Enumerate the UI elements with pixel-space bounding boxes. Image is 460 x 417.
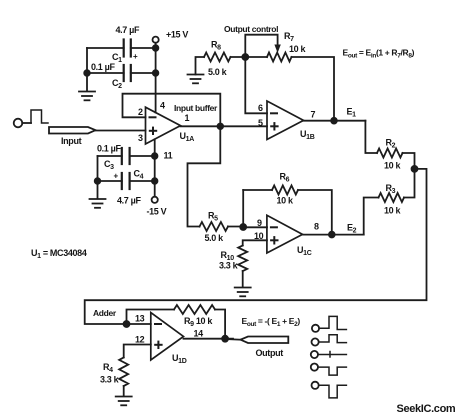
capacitor C4 xyxy=(114,169,144,206)
svg-text:4.7 µF: 4.7 µF xyxy=(116,25,140,35)
svg-text:5.0 k: 5.0 k xyxy=(208,67,228,77)
wire C2 left xyxy=(87,72,124,74)
wire C2 right xyxy=(131,72,156,74)
svg-text:13: 13 xyxy=(135,314,145,324)
ground (top-left cap rail) xyxy=(79,92,95,101)
svg-text:E1: E1 xyxy=(347,107,357,119)
node U1B output / R7 xyxy=(331,118,337,124)
svg-text:R9 10 k: R9 10 k xyxy=(184,316,213,328)
svg-text:+: + xyxy=(133,52,138,61)
-15V terminal xyxy=(147,197,167,217)
wire R4 to ground xyxy=(123,386,125,396)
svg-text:5: 5 xyxy=(258,118,263,128)
wire left rail C3/C4 xyxy=(97,156,99,199)
capacitor C2 xyxy=(91,62,131,90)
wire input flag to pin 3 xyxy=(96,130,146,132)
svg-text:10 k: 10 k xyxy=(277,196,294,206)
wire pin 10 xyxy=(243,240,267,245)
capacitor C3 xyxy=(97,144,130,172)
svg-text:1: 1 xyxy=(185,113,190,123)
svg-text:3.3 k: 3.3 k xyxy=(100,375,120,385)
op-amp U1D xyxy=(151,313,187,365)
svg-text:R8: R8 xyxy=(211,40,221,52)
node R2/R3 summing xyxy=(412,166,418,172)
wire R6 feedback left vertical xyxy=(242,190,244,227)
svg-text:R5: R5 xyxy=(208,211,218,223)
svg-text:C4: C4 xyxy=(134,169,144,181)
wire R3 right to node xyxy=(404,169,415,198)
svg-text:10 k: 10 k xyxy=(384,206,401,216)
wire R5 to pin 9 node xyxy=(228,226,243,228)
waveform terminal 3 xyxy=(311,351,318,358)
wire R7 right to U1B output node xyxy=(292,57,335,121)
node C4 left rail xyxy=(95,178,101,184)
wire pin 6 from R8/R7 node xyxy=(245,57,267,113)
svg-text:11: 11 xyxy=(164,151,173,161)
svg-text:R4: R4 xyxy=(103,362,113,374)
svg-text:U1C: U1C xyxy=(297,245,312,257)
waveform trace 5 (large negative pulse) xyxy=(319,385,347,398)
svg-text:14: 14 xyxy=(194,328,204,338)
wire output node to flag xyxy=(225,338,241,341)
svg-text:SeekIC.com: SeekIC.com xyxy=(397,403,456,415)
op-amp U1A xyxy=(146,103,219,144)
svg-text:-15 V: -15 V xyxy=(147,207,167,217)
ground (R8) xyxy=(188,75,204,84)
wire pin 9 xyxy=(243,226,267,228)
svg-text:Output control: Output control xyxy=(224,24,278,34)
wire R10 to ground xyxy=(242,271,244,287)
wire R9 feedback xyxy=(127,310,175,325)
wire C1 left xyxy=(87,47,124,49)
svg-text:Adder: Adder xyxy=(93,308,117,318)
wire E2 to R3 xyxy=(364,198,379,235)
resistor R2 xyxy=(377,138,403,171)
svg-text:Output: Output xyxy=(256,348,284,358)
waveform terminal 5 xyxy=(312,382,319,389)
svg-text:6: 6 xyxy=(258,103,263,113)
svg-text:12: 12 xyxy=(135,335,145,345)
resistor R4 xyxy=(100,358,128,387)
svg-text:9: 9 xyxy=(257,218,262,228)
resistor R3 xyxy=(379,183,405,216)
svg-text:Input: Input xyxy=(61,136,82,146)
svg-text:U1 = MC34084: U1 = MC34084 xyxy=(31,248,87,260)
wire U1A output down to R5 xyxy=(188,126,221,226)
svg-text:4: 4 xyxy=(160,101,165,111)
wire +15V rail xyxy=(155,43,157,113)
resistor R5 xyxy=(200,211,229,244)
ground (C3/C4 rail) xyxy=(90,199,106,208)
waveform trace 1 (large positive pulse) xyxy=(319,316,346,329)
wire U1A output xyxy=(181,125,268,127)
input pulse waveform glyph xyxy=(31,110,48,123)
waveform trace 4 (small negative pulse) xyxy=(318,367,346,375)
node C4 / -15V rail xyxy=(152,178,158,184)
wire pin 11 xyxy=(154,139,156,196)
wire U1D output xyxy=(184,338,234,340)
wire C1 right xyxy=(131,47,156,49)
svg-text:0.1 µF: 0.1 µF xyxy=(97,144,121,154)
wire R6 left xyxy=(243,189,272,191)
wire C4 right xyxy=(130,180,155,182)
svg-text:3: 3 xyxy=(138,133,143,143)
svg-text:U1D: U1D xyxy=(172,353,187,365)
wire R2 right to node xyxy=(403,153,415,169)
node U1A output xyxy=(218,124,224,130)
svg-text:+: + xyxy=(114,172,119,181)
node C1/+15V rail xyxy=(153,45,159,51)
wire R9 right to output node xyxy=(215,310,225,339)
input pointer flag "Input" xyxy=(49,127,96,146)
waveform terminal 2 xyxy=(312,338,319,345)
svg-text:4.7 µF: 4.7 µF xyxy=(117,196,141,206)
node U1C output / R6 xyxy=(329,232,335,238)
wire R8 to node xyxy=(231,56,268,58)
svg-text:R6: R6 xyxy=(280,172,290,184)
wire output control xyxy=(245,35,277,57)
svg-text:C3: C3 xyxy=(104,159,114,171)
resistor R9 xyxy=(174,305,215,328)
ground (R4) xyxy=(116,397,132,406)
node adder input pin 13 xyxy=(124,321,130,327)
op-amp U1C xyxy=(267,215,312,257)
node C3 / pin 11 rail xyxy=(152,153,158,159)
+15V terminal xyxy=(153,30,189,43)
waveform terminal 4 xyxy=(311,364,318,371)
svg-text:U1B: U1B xyxy=(300,129,315,141)
svg-text:10 k: 10 k xyxy=(384,161,401,171)
ground (R10) xyxy=(235,288,251,297)
svg-text:Eout = Ein(1 + R7/R8): Eout = Ein(1 + R7/R8) xyxy=(343,48,415,60)
svg-text:5.0 k: 5.0 k xyxy=(205,233,225,243)
svg-text:U1A: U1A xyxy=(180,131,195,143)
svg-text:7: 7 xyxy=(311,110,316,120)
input terminal xyxy=(14,119,23,128)
svg-text:R3: R3 xyxy=(386,183,396,195)
wire R6 right to U1C output node xyxy=(298,190,332,235)
svg-text:R7: R7 xyxy=(284,31,294,43)
wire summing node to adder bus xyxy=(85,169,427,324)
wire C4 left xyxy=(98,180,122,182)
resistor R6 xyxy=(272,172,298,206)
wire U1C output xyxy=(303,234,364,236)
waveform trace 3 (zero output) xyxy=(318,352,346,358)
svg-text:2: 2 xyxy=(138,107,143,117)
output pointer flag "Output" xyxy=(241,337,289,359)
node pin 9 xyxy=(240,224,246,230)
svg-text:Input buffer: Input buffer xyxy=(174,103,218,113)
node C2/+15V rail xyxy=(153,70,159,76)
wire U1B output xyxy=(304,120,366,122)
wiper arrow of R7 xyxy=(274,45,280,54)
potentiometer R7 xyxy=(267,31,306,62)
svg-text:E2: E2 xyxy=(347,223,357,235)
resistor R10 xyxy=(219,246,247,272)
node C2 left rail xyxy=(84,70,90,76)
wire input xyxy=(22,122,31,124)
svg-text:0.1 µF: 0.1 µF xyxy=(91,62,115,72)
svg-text:+15 V: +15 V xyxy=(166,30,188,40)
wire R8 left to ground xyxy=(196,57,205,75)
svg-text:10 k: 10 k xyxy=(289,44,306,54)
wire C3 right xyxy=(130,155,155,157)
wire C3 left xyxy=(98,155,122,157)
wire U1A feedback loop xyxy=(123,94,221,127)
svg-text:8: 8 xyxy=(314,222,319,232)
waveform terminal 1 xyxy=(312,325,319,332)
op-amp U1B xyxy=(267,101,315,141)
capacitor C1 xyxy=(112,25,140,64)
svg-text:Eout = -( E1 + E2): Eout = -( E1 + E2) xyxy=(242,316,301,328)
svg-text:3.3 k: 3.3 k xyxy=(219,261,239,271)
resistor R8 xyxy=(204,40,231,78)
waveform trace 2 (small positive pulse) xyxy=(319,335,347,343)
node U1D output xyxy=(222,336,228,342)
svg-text:C2: C2 xyxy=(112,78,122,90)
wire E1 to R2 xyxy=(365,121,377,153)
wire left cap rail xyxy=(86,48,88,91)
wire pin 12 xyxy=(124,345,151,358)
node R8/R7 junction xyxy=(242,54,248,60)
